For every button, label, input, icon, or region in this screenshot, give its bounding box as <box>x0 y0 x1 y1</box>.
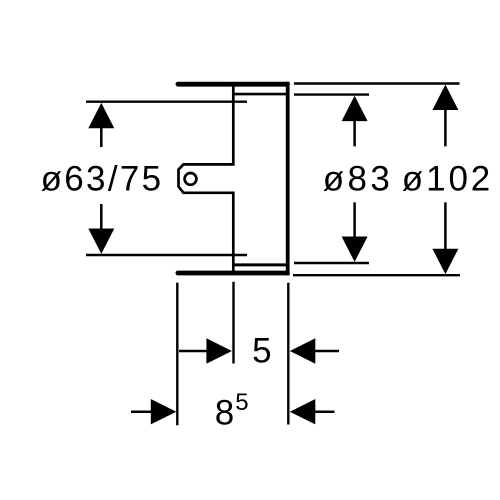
svg-text:ø63/75: ø63/75 <box>41 159 164 198</box>
svg-text:5: 5 <box>235 389 248 416</box>
svg-text:5: 5 <box>252 331 271 370</box>
svg-text:ø102: ø102 <box>402 159 493 198</box>
svg-text:ø83: ø83 <box>323 159 394 198</box>
svg-text:8: 8 <box>215 394 234 433</box>
